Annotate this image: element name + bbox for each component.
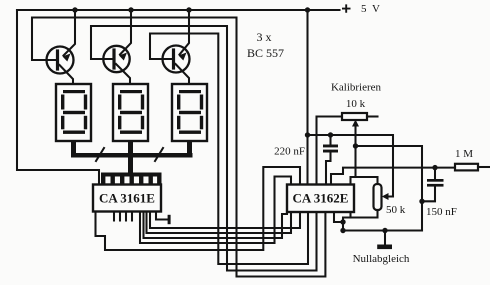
label: +5V	[342, 3, 382, 15]
bus slash mark left	[96, 148, 104, 161]
wiper arrow of 50k	[382, 193, 389, 200]
transistor Q3 BC557	[163, 10, 190, 84]
wire: CA3161E-CA3162E data line 1	[150, 212, 300, 229]
wire: bus feed to CA3161E comb	[128, 158, 133, 174]
bus slash mark right	[155, 148, 163, 161]
svg-text:1 M: 1 M	[455, 148, 473, 160]
wire: left frame from +5V to CA3161E pin	[17, 10, 99, 185]
wire: Q2 base digit-2 drive loop to CA3162E	[91, 26, 317, 271]
node: rail junction CA3162E supply	[305, 7, 310, 12]
resistor R2 50k potentiometer body	[374, 184, 382, 210]
wire: CA3161E pin to terminal stub	[156, 212, 168, 220]
wire: comb bar above CA3161E	[101, 173, 162, 177]
wire: wiper branch to ground rail	[356, 146, 423, 231]
transistor Q1 BC557	[47, 10, 76, 84]
svg-text:50 k: 50 k	[386, 204, 406, 216]
display DS3 7-segment	[172, 84, 207, 154]
svg-text:Nullabgleich: Nullabgleich	[353, 253, 410, 265]
wire: Q1 base digit-1 drive loop to CA3162E	[32, 18, 325, 277]
resistor R1 10k Kalibrieren body	[342, 113, 367, 120]
ground Nullabgleich symbol	[377, 231, 392, 250]
wire: 10k left lead down to CA3162E	[317, 117, 343, 185]
wiper arrow of 10k	[352, 120, 359, 127]
pins: comb teeth to CA3161E segment inputs	[101, 177, 162, 186]
node: junction 1M / 150nF	[432, 165, 437, 170]
node: junction rail feed / bias line	[305, 132, 310, 137]
node: rail junction Q3 emitter	[186, 7, 191, 12]
svg-text:5 V: 5 V	[361, 3, 382, 15]
pin: CA3162E pin to ground cluster	[334, 212, 343, 222]
svg-text:BC 557: BC 557	[247, 46, 284, 60]
wire: CA3161E-CA3162E data line 2	[147, 212, 292, 234]
transistor Q2 BC557	[103, 10, 131, 84]
svg-text:CA 3161E: CA 3161E	[99, 191, 155, 206]
wire: 10k wiper stem	[354, 125, 356, 177]
node: rail junction Q2 emitter	[128, 7, 133, 12]
wire: ground rail bottom	[343, 229, 422, 231]
capacitor C2 150nF	[419, 168, 443, 204]
wire: CA3161E-CA3162E data line 3	[144, 212, 288, 239]
svg-text:3 x: 3 x	[257, 30, 272, 44]
op-amp U2 CA3162E body	[287, 185, 354, 213]
display DS1 7-segment	[56, 84, 91, 154]
node: junction ground rail at symbol	[382, 228, 387, 233]
wire: CA3161E-CA3162E data line 5	[96, 167, 301, 250]
wire: 50k top lead to CA3162E	[351, 177, 378, 185]
wire: Q3 base digit-3 drive loop to CA3162E	[150, 34, 308, 265]
resistor R3 1M body	[455, 164, 478, 171]
pin: CA3162E ground pin right	[349, 212, 351, 218]
wire: segment bus below displays	[71, 153, 193, 158]
wire: +5V feed to CA3162E	[306, 10, 308, 185]
svg-text:Kalibrieren: Kalibrieren	[331, 82, 382, 94]
wire: CA3161E-CA3162E data line 4	[140, 177, 291, 244]
wire: +5V supply rail	[17, 9, 340, 11]
pins: CA3161E unused bottom stubs	[114, 212, 132, 221]
svg-text:CA 3162E: CA 3162E	[293, 191, 349, 206]
display DS2 7-segment	[113, 84, 148, 154]
op-amp U1 CA3161E body	[93, 185, 161, 212]
node: junction wiper / ground branch	[353, 143, 358, 148]
capacitor C1 220nF	[323, 132, 338, 184]
svg-text:220 nF: 220 nF	[274, 146, 305, 158]
wire: analog input stair from CA3162E to 1M	[331, 168, 455, 185]
svg-text:10 k: 10 k	[346, 98, 366, 110]
svg-text:150 nF: 150 nF	[426, 206, 457, 218]
node: junction ground rail left	[340, 228, 345, 233]
wire: bias line to 50k wiper	[308, 135, 394, 197]
terminal bar	[168, 215, 171, 224]
wire: 1M right lead	[478, 166, 490, 168]
wire: 50k bottom lead to ground cluster	[343, 210, 378, 231]
node: rail junction Q1 emitter	[72, 7, 77, 12]
wire: 10k right lead	[367, 115, 378, 117]
node: junction ground cluster	[340, 219, 345, 224]
